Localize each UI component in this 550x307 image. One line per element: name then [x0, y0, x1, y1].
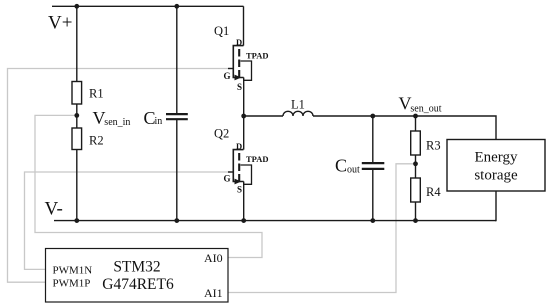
node junction Cout top	[370, 114, 375, 119]
wire Vsen_out node to R3	[415, 116, 417, 131]
wire Vsen_out to energy storage top	[416, 116, 497, 140]
svg-text:Q1: Q1	[214, 24, 229, 38]
wire Q2 gate stub	[228, 171, 233, 173]
svg-text:sen_in: sen_in	[104, 117, 130, 128]
svg-text:R2: R2	[89, 134, 104, 148]
wire R3 to R4	[415, 155, 417, 178]
svg-text:V-: V-	[45, 199, 63, 220]
wire switch node to Q2 drain	[243, 116, 245, 150]
svg-text:G: G	[224, 71, 231, 81]
wire V+ rail to Q1 drain	[243, 6, 245, 45]
svg-text:in: in	[155, 116, 163, 127]
wire R2 to V- rail	[76, 150, 78, 221]
wire Q2 source to V- rail	[243, 182, 245, 221]
resistor R4	[411, 178, 421, 202]
svg-text:storage: storage	[474, 167, 518, 183]
svg-text:R1: R1	[89, 87, 104, 101]
block STM32 microcontroller U1	[46, 249, 229, 303]
svg-text:sen_out: sen_out	[410, 103, 441, 114]
wire V+ to R1	[76, 6, 78, 81]
wire R4 to V- rail	[415, 202, 417, 221]
wire switch node to L1	[244, 115, 283, 117]
wire Cout bottom to V- rail	[372, 169, 374, 221]
svg-text:R3: R3	[426, 139, 441, 153]
svg-text:L1: L1	[291, 98, 305, 112]
block energy storage	[447, 140, 545, 192]
resistor R2	[72, 128, 82, 150]
wire Q1 gate stub	[228, 68, 233, 70]
svg-text:S: S	[237, 185, 242, 195]
svg-text:Energy: Energy	[474, 149, 518, 165]
svg-text:AI0: AI0	[204, 251, 223, 265]
wire Cout top	[372, 116, 374, 163]
svg-text:G474RET6: G474RET6	[102, 276, 174, 293]
wire energy storage bottom to V- rail	[495, 191, 496, 221]
node junction V+ rail / Cin branch	[174, 4, 179, 9]
node Vsen_out	[413, 114, 418, 119]
wire PWM1N to Q2 gate (gray)	[25, 172, 232, 269]
transistor Q2	[233, 150, 251, 185]
svg-text:PWM1N: PWM1N	[53, 265, 93, 277]
svg-text:AI1: AI1	[204, 286, 223, 300]
svg-text:Q2: Q2	[214, 127, 229, 141]
wire L1 to Vsen_out node	[313, 115, 416, 117]
wire V+ rail to Cin	[176, 6, 178, 114]
svg-text:R4: R4	[426, 185, 441, 199]
inductor L1	[283, 111, 313, 116]
node junction R3-R4	[413, 161, 418, 166]
wire R1 to Vsen_in node	[76, 104, 78, 128]
wire PWM1P to Q1 gate (gray)	[8, 69, 232, 283]
svg-text:PWM1P: PWM1P	[53, 278, 91, 290]
wire Cin to V- rail	[176, 119, 178, 220]
svg-text:C: C	[335, 156, 347, 176]
svg-text:out: out	[347, 165, 360, 176]
svg-text:G: G	[224, 174, 231, 184]
svg-text:S: S	[237, 82, 242, 92]
capacitor Cin	[166, 114, 188, 119]
capacitor Cout	[362, 163, 385, 169]
node junction V- rail / R2	[74, 218, 79, 223]
node junction V- rail / Cin	[174, 218, 179, 223]
svg-text:TPAD: TPAD	[246, 51, 269, 61]
svg-text:V+: V+	[48, 13, 72, 34]
wire V+ rail	[52, 5, 244, 7]
node junction V+ rail / R1 branch	[74, 4, 79, 9]
resistor R1	[72, 82, 82, 105]
svg-text:STM32: STM32	[113, 259, 160, 276]
node junction V- rail / Q2 source	[241, 218, 246, 223]
wire Q1 source to switch node	[243, 78, 245, 117]
wire AI0 to Vsen_in (gray)	[35, 115, 262, 257]
wire AI1 to R3-R4 node (gray)	[228, 164, 414, 293]
svg-text:D: D	[236, 37, 242, 47]
node switch node	[241, 114, 246, 119]
node junction V- rail / Cout	[370, 218, 375, 223]
node junction V- rail / R4	[413, 218, 418, 223]
transistor Q1	[233, 46, 251, 81]
node Vsen_in	[74, 113, 79, 118]
resistor R3	[411, 131, 421, 155]
svg-text:D: D	[236, 141, 242, 151]
wire V- rail	[54, 220, 496, 222]
svg-text:TPAD: TPAD	[246, 154, 269, 164]
